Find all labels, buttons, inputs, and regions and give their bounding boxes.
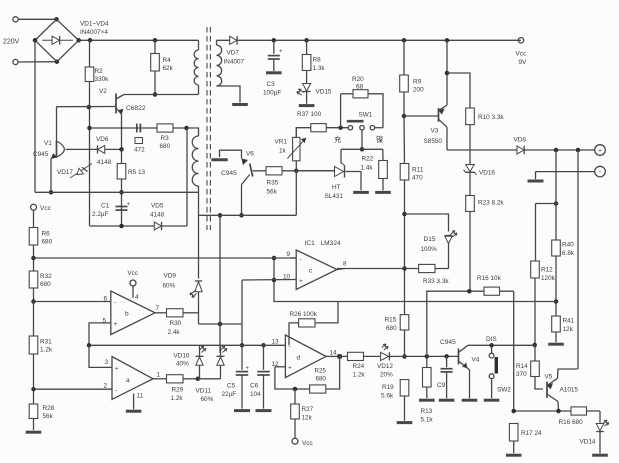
svg-text:V3: V3: [431, 128, 439, 135]
svg-text:Vcc: Vcc: [302, 440, 313, 447]
svg-text:VD5: VD5: [151, 203, 164, 210]
svg-text:6: 6: [104, 296, 108, 303]
svg-text:VD15: VD15: [316, 89, 332, 96]
svg-text:C5: C5: [227, 383, 236, 390]
svg-text:100µF: 100µF: [263, 90, 281, 97]
svg-text:9: 9: [287, 251, 291, 258]
svg-text:2.4k: 2.4k: [168, 329, 181, 336]
svg-text:C945: C945: [440, 339, 456, 346]
svg-text:+: +: [299, 278, 303, 285]
svg-text:6.8k: 6.8k: [562, 250, 575, 257]
svg-text:220V: 220V: [3, 39, 20, 46]
svg-text:D15: D15: [424, 236, 436, 243]
svg-text:VD10: VD10: [174, 353, 190, 360]
svg-text:VD6: VD6: [96, 136, 109, 143]
svg-text:2: 2: [104, 383, 108, 390]
svg-text:R23 8.2k: R23 8.2k: [478, 200, 504, 207]
svg-text:VD11: VD11: [196, 388, 212, 395]
svg-text:200: 200: [413, 87, 424, 94]
svg-text:56k: 56k: [267, 189, 278, 196]
svg-text:-: -: [300, 256, 302, 263]
svg-text:-: -: [115, 387, 117, 394]
svg-text:R27: R27: [302, 406, 314, 413]
svg-text:VD16: VD16: [479, 170, 495, 177]
svg-text:62k: 62k: [163, 65, 174, 72]
svg-text:22µF: 22µF: [222, 391, 237, 398]
svg-text:SW2: SW2: [497, 387, 511, 394]
svg-text:40%: 40%: [176, 361, 189, 368]
svg-text:R35: R35: [267, 180, 279, 187]
svg-text:R16 10k: R16 10k: [477, 275, 502, 282]
svg-text:b: b: [125, 311, 129, 318]
svg-text:R5 13: R5 13: [128, 169, 145, 176]
svg-text:370: 370: [516, 371, 527, 378]
svg-text:R22: R22: [362, 156, 374, 163]
svg-text:60%: 60%: [201, 396, 214, 403]
svg-text:R14: R14: [516, 363, 528, 370]
svg-text:V4: V4: [472, 357, 480, 364]
svg-text:12k: 12k: [563, 326, 574, 333]
svg-text:3: 3: [105, 359, 109, 366]
svg-text:R26 100k: R26 100k: [290, 311, 318, 318]
svg-text:IN4007×4: IN4007×4: [80, 29, 108, 36]
svg-text:+: +: [598, 148, 602, 155]
svg-text:1k: 1k: [279, 148, 287, 155]
svg-text:+: +: [127, 202, 131, 208]
svg-text:R16 680: R16 680: [559, 419, 584, 426]
svg-text:VR1: VR1: [275, 139, 288, 146]
svg-text:R40: R40: [562, 242, 574, 249]
svg-text:IN4007: IN4007: [224, 59, 245, 66]
svg-text:330k: 330k: [95, 76, 110, 83]
svg-text:1.4k: 1.4k: [361, 165, 374, 172]
svg-text:120k: 120k: [541, 275, 556, 282]
svg-text:VD7: VD7: [227, 50, 240, 57]
svg-text:R4: R4: [163, 57, 172, 64]
svg-text:470: 470: [412, 175, 423, 182]
svg-text:5.1k: 5.1k: [421, 417, 434, 424]
svg-text:充: 充: [334, 135, 341, 144]
svg-text:R29: R29: [172, 387, 184, 394]
svg-text:5: 5: [103, 318, 107, 325]
svg-text:R2: R2: [95, 68, 104, 75]
svg-text:1.2k: 1.2k: [353, 372, 366, 379]
svg-text:R17 24: R17 24: [521, 430, 542, 437]
svg-text:HT: HT: [332, 184, 341, 191]
svg-text:VD17: VD17: [57, 169, 73, 176]
svg-text:C945: C945: [221, 170, 237, 177]
svg-text:Vcc: Vcc: [128, 270, 138, 277]
svg-text:R12: R12: [541, 267, 553, 274]
svg-text:Vcc: Vcc: [40, 205, 52, 212]
svg-text:R8: R8: [313, 57, 322, 64]
svg-text:8: 8: [343, 261, 347, 268]
svg-text:+: +: [288, 365, 292, 372]
svg-text:LM324: LM324: [321, 240, 341, 247]
svg-text:7: 7: [156, 305, 160, 312]
svg-text:R11: R11: [412, 167, 424, 174]
svg-text:1.2k: 1.2k: [40, 347, 53, 354]
svg-text:R15: R15: [385, 317, 397, 324]
svg-text:C3: C3: [267, 81, 276, 88]
svg-text:680: 680: [42, 239, 53, 246]
svg-text:R24: R24: [353, 363, 365, 370]
svg-text:VD12: VD12: [377, 363, 393, 370]
svg-text:2.2µF: 2.2µF: [92, 211, 109, 218]
svg-text:IC1: IC1: [305, 240, 316, 247]
svg-text:60%: 60%: [163, 283, 176, 290]
svg-text:R31: R31: [40, 339, 52, 346]
svg-text:1: 1: [157, 372, 161, 379]
svg-text:VD8: VD8: [514, 137, 527, 144]
svg-text:V6: V6: [246, 151, 254, 158]
svg-text:R9: R9: [413, 79, 422, 86]
svg-text:104: 104: [250, 391, 261, 398]
svg-text:680: 680: [40, 281, 51, 288]
svg-text:472: 472: [134, 147, 145, 154]
svg-text:R20: R20: [352, 76, 364, 83]
svg-text:100%: 100%: [421, 246, 438, 253]
svg-text:4148: 4148: [97, 159, 112, 166]
svg-text:镍: 镍: [376, 135, 383, 144]
svg-text:R28: R28: [43, 405, 55, 412]
svg-text:R3: R3: [161, 135, 170, 142]
svg-text:10: 10: [283, 274, 291, 281]
svg-text:4: 4: [135, 294, 139, 301]
svg-text:VD14: VD14: [580, 439, 596, 446]
svg-text:R37 100: R37 100: [297, 111, 322, 118]
svg-text:-: -: [114, 299, 116, 306]
svg-text:4148: 4148: [150, 212, 165, 219]
svg-text:+: +: [114, 321, 118, 328]
svg-text:680: 680: [160, 143, 171, 150]
svg-text:R33 3.3k: R33 3.3k: [423, 278, 449, 285]
svg-text:V1: V1: [44, 140, 52, 147]
svg-text:Vcc: Vcc: [516, 51, 527, 58]
svg-text:20%: 20%: [380, 372, 393, 379]
svg-text:R6: R6: [42, 231, 51, 238]
svg-text:C945: C945: [33, 151, 49, 158]
svg-text:R32: R32: [40, 273, 52, 280]
svg-text:V2: V2: [99, 88, 107, 95]
svg-text:R41: R41: [563, 318, 575, 325]
svg-text:12: 12: [272, 361, 280, 368]
svg-text:-: -: [289, 343, 291, 350]
svg-text:680: 680: [316, 376, 327, 383]
svg-text:1.3k: 1.3k: [313, 65, 326, 72]
svg-text:SW1: SW1: [359, 112, 373, 119]
svg-text:11: 11: [137, 393, 144, 400]
svg-text:68: 68: [356, 84, 364, 91]
svg-text:C9: C9: [437, 382, 446, 389]
svg-text:R13: R13: [421, 408, 433, 415]
svg-text:R10 3.3k: R10 3.3k: [478, 114, 504, 121]
svg-text:5.6k: 5.6k: [381, 393, 394, 400]
svg-text:R19: R19: [382, 384, 394, 391]
svg-text:a: a: [126, 377, 130, 384]
svg-text:+: +: [279, 49, 283, 55]
svg-text:+: +: [115, 366, 119, 373]
svg-text:C6822: C6822: [126, 105, 146, 112]
svg-text:DIS: DIS: [486, 336, 497, 343]
svg-text:R25: R25: [315, 368, 327, 375]
svg-text:1.2k: 1.2k: [171, 395, 184, 402]
svg-text:R30: R30: [170, 320, 182, 327]
svg-text:12k: 12k: [302, 415, 313, 422]
svg-text:14: 14: [330, 350, 338, 357]
svg-text:V5: V5: [545, 374, 553, 381]
svg-text:56k: 56k: [43, 413, 54, 420]
svg-text:VD1~VD4: VD1~VD4: [80, 21, 109, 28]
svg-text:9V: 9V: [519, 59, 528, 66]
svg-text:C1: C1: [101, 203, 110, 210]
svg-text:A1015: A1015: [560, 387, 579, 394]
svg-text:VD9: VD9: [164, 273, 177, 280]
svg-text:S8550: S8550: [424, 138, 443, 145]
svg-text:13: 13: [272, 339, 280, 346]
svg-text:d: d: [297, 355, 301, 362]
svg-text:C6: C6: [250, 383, 259, 390]
svg-text:SL431: SL431: [325, 193, 344, 200]
svg-text:680: 680: [386, 325, 397, 332]
